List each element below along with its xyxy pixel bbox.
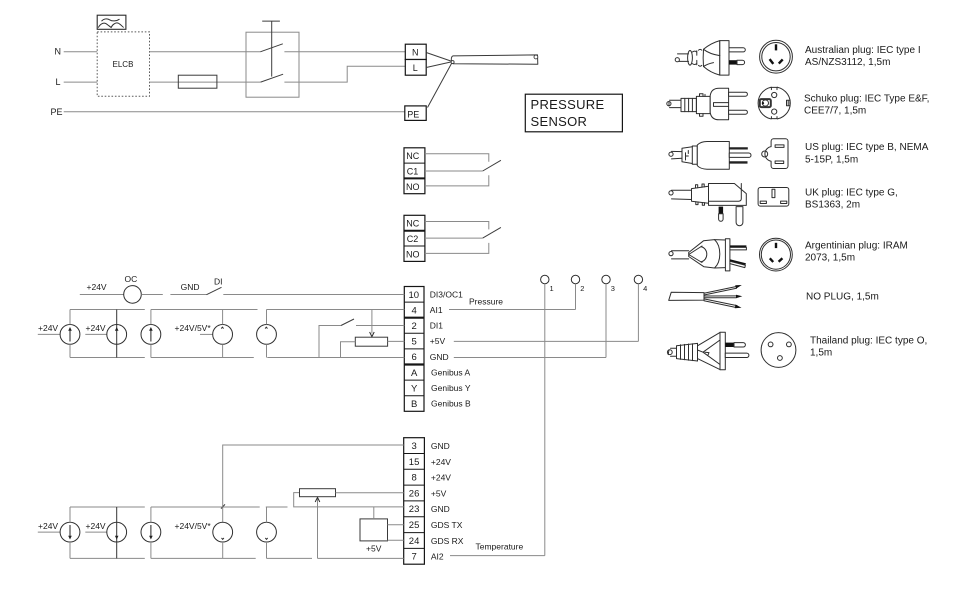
svg-text:4: 4 — [643, 284, 647, 293]
relay output block 2 (NC/C2/NO) — [404, 215, 425, 261]
svg-text:3: 3 — [611, 284, 615, 293]
UK plug front view — [758, 188, 789, 207]
svg-text:NO PLUG, 1,5m: NO PLUG, 1,5m — [806, 292, 879, 303]
svg-text:N: N — [412, 47, 419, 57]
rail group2 top (bottom section) — [151, 506, 260, 508]
wire N: contactor to terminal N — [284, 51, 405, 53]
wire hop tick at rail crossing — [221, 504, 225, 508]
svg-text:2: 2 — [412, 321, 417, 332]
wire pin 1 down to AI2 (Temperature) — [544, 284, 546, 556]
svg-text:5-15P, 1,5m: 5-15P, 1,5m — [805, 155, 858, 166]
current sink A (circle, arrow down) — [60, 507, 80, 558]
wire GND to pin 3 — [454, 357, 606, 359]
wire NO1 — [425, 175, 489, 186]
US plug side view — [669, 142, 751, 170]
rail group2 bottom (mid) — [151, 357, 254, 359]
svg-text:7: 7 — [412, 552, 417, 563]
svg-text:NC: NC — [406, 151, 419, 161]
OC open-collector output circle — [124, 286, 142, 304]
svg-text:26: 26 — [409, 488, 420, 499]
svg-text:8: 8 — [412, 473, 417, 484]
wire +5V box to terminal 25 (GDS TX) — [388, 524, 404, 526]
svg-text:BS1363, 2m: BS1363, 2m — [805, 199, 860, 210]
svg-text:+5V: +5V — [431, 488, 447, 498]
wire OC to GND segment — [141, 294, 163, 296]
ELCB (earth leakage circuit breaker, dashed box) — [97, 32, 149, 96]
relay switch arm C2 — [483, 227, 501, 238]
contactor actuator T-bar — [262, 21, 280, 77]
svg-text:GND: GND — [430, 352, 449, 362]
relay output block 1 (NC/C1/NO) — [404, 148, 425, 194]
svg-text:Genibus B: Genibus B — [431, 399, 471, 409]
svg-text:CEE7/7, 1,5m: CEE7/7, 1,5m — [804, 105, 866, 116]
svg-text:Genibus Y: Genibus Y — [431, 383, 471, 393]
relay switch arm C1 — [483, 160, 501, 171]
svg-text:GND: GND — [431, 504, 450, 514]
potentiometer R1 (mid) body — [355, 337, 387, 346]
terminal block X1 (10/4/2/5/6/A/Y/B) — [404, 287, 424, 412]
current source A (circle, arrow up) — [60, 310, 80, 358]
wire DI1 switch to terminal 2 — [356, 325, 404, 327]
wire C2 — [425, 237, 483, 239]
svg-text:+24V/5V*: +24V/5V* — [175, 323, 212, 333]
wire N: ELCB to contactor — [150, 51, 261, 53]
rail group1 top (bottom section) — [70, 506, 145, 508]
svg-text:AI1: AI1 — [430, 305, 443, 315]
svg-text:C2: C2 — [407, 234, 419, 244]
Australian plug side view — [675, 41, 745, 76]
svg-text:C1: C1 — [407, 167, 419, 177]
wire L terminal to cable — [426, 62, 451, 68]
svg-text:GND: GND — [181, 282, 200, 292]
fuse F1 — [178, 75, 217, 88]
Thailand plug side view — [667, 332, 749, 370]
wire +5V to pin 4 — [454, 340, 639, 342]
terminal L box — [405, 60, 426, 76]
+5V supply box (GDS) — [360, 519, 388, 554]
wire L: contactor to terminal L (with jog) — [284, 66, 405, 82]
current source C (circle, arrow up) — [141, 310, 161, 358]
svg-text:+24V: +24V — [86, 521, 106, 531]
svg-text:GND: GND — [431, 441, 450, 451]
wire +5V box top to GND wire — [373, 507, 375, 519]
svg-text:N: N — [55, 47, 62, 57]
potentiometer R2 (bottom) body — [300, 489, 336, 497]
svg-text:B: B — [411, 399, 417, 410]
wire AI1 to pin 2 — [449, 309, 576, 311]
svg-text:25: 25 — [409, 520, 420, 531]
sensor connector pin 2 — [571, 275, 584, 293]
svg-text:15: 15 — [409, 457, 420, 468]
DI1 switch riser from GND rail — [319, 326, 341, 358]
svg-text:+24V: +24V — [38, 323, 58, 333]
wire +5V box to terminal 24 (GDS RX) — [388, 539, 404, 541]
wire DI switch to terminal 10 — [223, 294, 404, 296]
svg-text:AI2: AI2 — [431, 552, 444, 562]
svg-text:2073, 1,5m: 2073, 1,5m — [805, 252, 855, 263]
current sink D (circle) — [213, 522, 233, 558]
wire L input to ELCB — [64, 81, 97, 83]
sensor connector pin 4 — [634, 275, 647, 293]
wire N input to ELCB — [64, 51, 97, 53]
svg-text:DI: DI — [214, 277, 223, 287]
svg-text:DI3/OC1: DI3/OC1 — [430, 289, 463, 299]
svg-text:+24V: +24V — [38, 521, 58, 531]
svg-text:10: 10 — [409, 290, 420, 301]
terminal N box — [405, 44, 426, 59]
wire L: ELCB to fuse to contactor — [150, 81, 261, 83]
Schuko plug side view — [667, 88, 748, 120]
Argentinian plug side view — [669, 239, 747, 271]
svg-text:1,5m: 1,5m — [810, 348, 832, 359]
current sink C (circle, arrow down) — [141, 507, 161, 558]
wire NC1 — [425, 154, 489, 162]
Argentinian plug front view — [760, 238, 793, 271]
sensor connector pin 3 — [602, 275, 615, 293]
rail group2 top (mid) — [151, 309, 258, 311]
wire terminal 3 (GND) to source rail — [223, 445, 404, 522]
svg-text:L: L — [56, 77, 61, 87]
rail group3 bottom (bottom section) — [267, 557, 313, 559]
terminal PE box — [405, 106, 426, 121]
svg-text:6: 6 — [412, 352, 417, 363]
svg-text:Thailand plug: IEC type O,: Thailand plug: IEC type O, — [810, 336, 927, 347]
pot R1 right terminal to terminal 5 (+5V) — [388, 340, 405, 342]
svg-text:+24V/5V*: +24V/5V* — [175, 521, 212, 531]
rail group1 bottom (bottom section) — [70, 557, 145, 559]
wire AI2 to pin 1 — [450, 555, 545, 557]
wire pin 4 drop — [637, 284, 639, 342]
surge filter icon box — [97, 15, 126, 29]
wire N terminal to cable — [426, 53, 451, 62]
svg-text:PRESSURE: PRESSURE — [531, 97, 605, 112]
svg-text:3: 3 — [412, 441, 417, 452]
current source B (circle, arrow up, through-line) — [107, 310, 127, 358]
wire stub into sink B — [85, 531, 107, 533]
svg-text:+24V: +24V — [86, 323, 106, 333]
svg-text:NO: NO — [406, 250, 420, 260]
sensor cable — [451, 55, 538, 64]
wire PE input to PE terminal — [64, 111, 405, 113]
Thailand plug front view — [761, 333, 796, 368]
pressure sensor label box — [525, 94, 622, 132]
svg-text:Genibus A: Genibus A — [431, 367, 471, 377]
pot R1 left terminal to GND rail — [341, 342, 356, 358]
svg-text:GDS TX: GDS TX — [431, 520, 463, 530]
svg-text:Australian plug: IEC type I: Australian plug: IEC type I — [805, 45, 921, 56]
svg-text:2: 2 — [580, 284, 584, 293]
switch DI (digital input) — [207, 287, 222, 294]
rail group3 top / wire to terminal 4 (AI1) — [267, 309, 405, 311]
wire terminal 23 (GND) with riser to pot left — [294, 493, 404, 507]
UK plug side view — [669, 184, 746, 226]
svg-text:1: 1 — [550, 284, 554, 293]
wire stub into source B — [85, 333, 107, 335]
svg-text:Pressure: Pressure — [469, 297, 503, 307]
contactor K1 box — [246, 32, 299, 97]
svg-text:NO: NO — [406, 182, 420, 192]
svg-text:5: 5 — [412, 337, 417, 348]
current sink E (circle) — [257, 507, 277, 558]
svg-text:Temperature: Temperature — [476, 541, 524, 551]
NO PLUG cable drawing — [669, 285, 743, 308]
wire stub into source D — [200, 333, 213, 335]
svg-text:AS/NZS3112, 1,5m: AS/NZS3112, 1,5m — [805, 57, 890, 68]
wire NO2 — [425, 243, 489, 254]
wire stub into sink A — [38, 531, 60, 533]
sensor connector pin 1 — [541, 275, 554, 293]
wire NC2 — [425, 222, 489, 230]
svg-text:PE: PE — [407, 109, 419, 119]
svg-text:DI1: DI1 — [430, 321, 444, 331]
svg-text:+5V: +5V — [430, 336, 446, 346]
svg-text:ELCB: ELCB — [113, 60, 134, 69]
svg-text:PE: PE — [51, 107, 63, 117]
svg-text:OC: OC — [125, 274, 138, 284]
wire pin 2 drop — [575, 284, 577, 310]
pot R2 wiper to terminal 7 (AI2), arrow up — [315, 497, 404, 558]
svg-text:Schuko plug: IEC Type E&F,: Schuko plug: IEC Type E&F, — [804, 93, 929, 104]
svg-text:+5V: +5V — [366, 544, 382, 554]
svg-text:US plug: IEC type B, NEMA: US plug: IEC type B, NEMA — [805, 142, 929, 153]
wire GND segment to DI switch — [170, 294, 206, 296]
rail group3 bottom / wire to terminal 6 (GND) — [267, 357, 404, 359]
rail group1 top (mid) — [70, 309, 145, 311]
Australian plug front view — [760, 40, 793, 73]
svg-text:L: L — [413, 63, 418, 73]
wire pin 3 drop — [605, 284, 607, 358]
switch DI1 arm — [341, 319, 354, 326]
pot R2 right terminal to terminal 26 (+5V) — [336, 492, 404, 494]
wire C1 — [425, 170, 483, 172]
rail group1 bottom (mid) — [70, 357, 145, 359]
rail group2 bottom (bottom section) — [151, 557, 256, 559]
svg-text:SENSOR: SENSOR — [531, 114, 588, 129]
svg-text:GDS RX: GDS RX — [431, 536, 464, 546]
svg-text:4: 4 — [412, 305, 417, 316]
svg-text:Argentinian plug: IRAM: Argentinian plug: IRAM — [805, 240, 908, 251]
current source E (circle) — [257, 310, 277, 358]
rail group3 top (bottom section) — [266, 506, 288, 508]
US plug front view — [762, 139, 788, 169]
svg-text:+24V: +24V — [87, 282, 107, 292]
pot R1 wiper from AI1 rail (arrow down) — [370, 310, 375, 337]
svg-text:24: 24 — [409, 536, 420, 547]
wire +24V to OC output — [80, 294, 124, 296]
svg-text:+24V: +24V — [431, 457, 451, 467]
current sink B (circle, arrow down, through-line) — [107, 507, 127, 558]
svg-text:NC: NC — [406, 219, 419, 229]
svg-text:+24V: +24V — [431, 473, 451, 483]
svg-text:Y: Y — [411, 383, 418, 394]
svg-text:23: 23 — [409, 504, 420, 515]
terminal block X2 (3/15/8/26/23/25/24/7) — [404, 438, 425, 565]
contactor contact L (switch arm) — [261, 74, 284, 82]
wire stub into source A — [38, 333, 60, 335]
svg-text:A: A — [411, 368, 418, 379]
wire PE terminal to cable — [428, 64, 452, 108]
contactor contact N (switch arm) — [260, 44, 283, 52]
current source D (circle) — [213, 310, 233, 358]
svg-text:UK plug: IEC type G,: UK plug: IEC type G, — [805, 187, 898, 198]
Schuko plug front view — [758, 87, 790, 120]
